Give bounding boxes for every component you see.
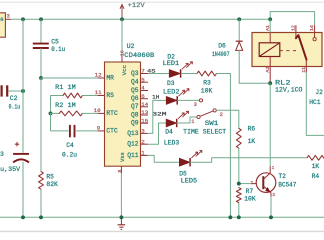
junction R1-R2 node — [49, 111, 53, 115]
junction MR node — [39, 76, 43, 80]
wire SW1 to R6 — [216, 110, 239, 128]
svg-text:D3: D3 — [167, 80, 175, 87]
relay RL2 body — [252, 33, 322, 67]
label HC1 — [309, 99, 321, 106]
svg-text:R4: R4 — [312, 173, 320, 180]
junction bus-T2 — [269, 215, 273, 219]
label TIME SELECT — [183, 129, 226, 136]
junction bus-C3 — [21, 215, 25, 219]
svg-text:R6: R6 — [248, 126, 256, 133]
T2 collector pin — [270, 166, 275, 173]
label LED5 — [181, 178, 198, 185]
svg-text:16: 16 — [119, 50, 125, 56]
resistor R1 — [55, 84, 97, 98]
svg-text:MR: MR — [106, 75, 114, 82]
U2 pin5 Q4 stub — [131, 76, 148, 85]
junction bus-R3 — [228, 215, 232, 219]
wire pin2 to D4 — [148, 123, 166, 144]
label 12V 1CO — [275, 87, 303, 94]
svg-text:4: 4 — [141, 85, 145, 92]
junction rail-C5 — [39, 17, 43, 21]
svg-text:BC547: BC547 — [278, 181, 296, 188]
svg-text:11: 11 — [95, 89, 102, 96]
svg-text:12: 12 — [95, 72, 102, 79]
label D3 — [167, 80, 175, 87]
resistor R3 — [197, 71, 217, 94]
svg-text:6: 6 — [141, 93, 145, 100]
svg-text:R5: R5 — [46, 173, 54, 180]
svg-text:1: 1 — [272, 167, 275, 171]
svg-text:U2: U2 — [127, 43, 135, 50]
svg-text:TIME SELECT: TIME SELECT — [183, 129, 226, 136]
svg-text:1K: 1K — [248, 138, 256, 145]
svg-text:RS: RS — [106, 92, 114, 99]
resistor R2 — [51, 102, 98, 116]
U2 pin13 Q8 stub — [131, 109, 149, 118]
SW1 contact 1 — [191, 115, 200, 125]
wire rail to C5 — [40, 19, 42, 43]
svg-text:12V,1CO: 12V,1CO — [275, 87, 303, 94]
svg-text:10: 10 — [94, 107, 101, 114]
relay pin 11 — [301, 60, 307, 73]
ground bus wire — [0, 216, 324, 218]
relay pin A2 — [265, 57, 271, 84]
wire C2 to node — [8, 90, 23, 92]
capacitor C5 — [33, 38, 66, 53]
relay dashed link — [280, 50, 298, 52]
svg-text:1: 1 — [141, 150, 145, 157]
svg-text:2: 2 — [220, 112, 223, 118]
wire pin3 to D3 — [148, 100, 166, 133]
svg-text:HC1: HC1 — [309, 99, 321, 106]
wire rail down to C3 — [22, 19, 24, 153]
wire C3 to ground bus — [22, 162, 24, 218]
U2 pin3 Q13 stub — [127, 128, 148, 137]
junction rail-D6 — [237, 17, 241, 21]
sheet border top — [0, 1, 324, 3]
resistor R7 — [236, 188, 256, 203]
svg-text:1N4007: 1N4007 — [212, 51, 230, 58]
wire MR node down to R5 — [40, 78, 42, 172]
SW1 contact 2 — [213, 109, 223, 118]
U2 pin7 Q3 stub — [131, 68, 148, 77]
junction rail-relay — [268, 17, 272, 21]
wire D2 to R3 — [181, 73, 197, 75]
wire C4 to pin9 — [76, 130, 97, 132]
U2 reference U2 — [127, 43, 135, 50]
resistor R5 — [39, 172, 59, 190]
LED D2 — [169, 62, 192, 78]
svg-text:Q13: Q13 — [127, 130, 139, 137]
net label 1H — [152, 93, 159, 100]
svg-text:Q9: Q9 — [131, 120, 139, 127]
power flag +12V — [120, 2, 145, 19]
wire D3 to SW contact 3 — [177, 99, 199, 101]
wire R5 to ground bus — [40, 189, 42, 217]
capacitor C3 — [0, 142, 29, 173]
label LED3 — [164, 139, 180, 146]
svg-text:Q8: Q8 — [131, 111, 139, 118]
T2 base pin — [250, 180, 256, 186]
svg-text:D6: D6 — [218, 42, 226, 49]
capacitor C2 — [2, 85, 21, 110]
svg-text:Q7: Q7 — [131, 103, 139, 110]
svg-text:R1 1M: R1 1M — [55, 84, 76, 91]
net label 4S — [147, 68, 156, 75]
svg-text:R2 1M: R2 1M — [55, 102, 76, 109]
svg-text:RL2: RL2 — [275, 79, 291, 86]
svg-text:Q3: Q3 — [131, 70, 139, 77]
relay pin 12 — [291, 25, 297, 38]
net label 32M — [152, 111, 166, 118]
svg-text:LED1: LED1 — [163, 60, 180, 67]
wire base node — [239, 183, 251, 185]
wire C5 to MR node — [40, 48, 42, 78]
junction bus-R7 — [237, 215, 241, 219]
LED D5 — [179, 150, 202, 166]
label SW1 — [205, 120, 219, 127]
pin 3 of J1 — [5, 14, 11, 20]
LED D4 — [166, 111, 189, 127]
svg-text:D5: D5 — [179, 170, 187, 177]
LED D3 — [166, 89, 189, 105]
U2 pin14 Q7 stub — [131, 101, 149, 110]
svg-text:RTC: RTC — [106, 110, 118, 117]
wire pin1 to D5 — [148, 155, 179, 162]
wire R7 to bus — [238, 203, 240, 218]
wire +12V rail — [11, 18, 270, 20]
junction base node — [237, 182, 241, 186]
svg-text:14: 14 — [309, 25, 315, 31]
junction rail-C3 — [21, 17, 25, 21]
U2 pin2 Q12 stub — [127, 138, 148, 147]
svg-text:32M: 32M — [152, 111, 166, 118]
svg-text:7: 7 — [141, 68, 145, 75]
svg-text:T2: T2 — [278, 173, 286, 180]
wire D5 to R4 row — [190, 158, 306, 162]
label D4 — [165, 129, 173, 136]
svg-text:Vcc: Vcc — [121, 64, 128, 75]
svg-text:10K: 10K — [201, 88, 213, 95]
U2 pin12 MR stub — [95, 72, 115, 82]
U2 pin15 Q9 stub — [131, 117, 149, 126]
SW1 lever — [200, 111, 213, 116]
wire relay pin14 feed — [270, 12, 314, 26]
sheet border bottom — [0, 230, 324, 232]
wire emitter to bus — [270, 197, 272, 218]
svg-text:3: 3 — [141, 128, 145, 135]
wire D6 to A2 node — [239, 50, 270, 83]
svg-text:82K: 82K — [46, 181, 58, 188]
svg-text:3: 3 — [272, 194, 275, 198]
svg-text:J2: J2 — [315, 89, 323, 96]
svg-text:5: 5 — [141, 76, 145, 83]
transistor T2 BC547 — [256, 173, 296, 193]
junction A2 node — [268, 81, 272, 85]
svg-text:Q4: Q4 — [131, 79, 139, 86]
wire R6 to base node — [238, 148, 240, 183]
svg-text:15: 15 — [141, 117, 148, 124]
wire pin11 to J2 — [306, 73, 324, 136]
capacitor C4 — [62, 125, 77, 159]
wire MR node to pin12 — [41, 77, 98, 79]
svg-text:11: 11 — [301, 67, 307, 73]
label LED1 — [163, 60, 180, 67]
svg-text:D4: D4 — [165, 129, 173, 136]
svg-text:CD4060B: CD4060B — [124, 52, 154, 59]
label J2 — [315, 89, 323, 96]
svg-text:3: 3 — [7, 14, 10, 20]
svg-text:A2: A2 — [265, 67, 271, 73]
relay pin A1 — [265, 19, 271, 43]
U2 pin16 Vcc — [119, 19, 128, 75]
svg-text:8: 8 — [117, 170, 123, 173]
U2 pin1 Q11 stub — [127, 150, 148, 159]
U2 pin6 Q6 stub — [131, 93, 148, 102]
wire D4 to SW contact 1 — [177, 117, 197, 123]
svg-text:C4: C4 — [66, 142, 74, 149]
connector J1 body — [0, 13, 5, 37]
wire node to C4 — [51, 113, 69, 130]
svg-text:10K: 10K — [244, 195, 256, 202]
U2 pin9 CTC stub — [97, 125, 118, 135]
U2 pin10 RTC stub — [94, 107, 118, 117]
wire R3 down to bus — [217, 74, 231, 218]
svg-text:1H: 1H — [152, 93, 159, 100]
svg-text:Q5: Q5 — [131, 87, 139, 94]
svg-text:2: 2 — [141, 138, 145, 145]
label LED2 — [163, 89, 180, 96]
svg-text:0.1u: 0.1u — [9, 103, 21, 110]
svg-text:Q11: Q11 — [127, 152, 139, 159]
junction bus-R5 — [39, 215, 43, 219]
relay pin 14 — [309, 25, 316, 41]
svg-text:u,35V: u,35V — [0, 166, 20, 173]
SW1 contact 3 — [194, 99, 203, 108]
svg-text:1: 1 — [191, 119, 194, 125]
resistor R6 — [236, 126, 255, 149]
ground symbol — [118, 217, 126, 229]
T2 emitter pin — [271, 193, 275, 198]
label RL2 — [275, 79, 291, 86]
svg-text:13: 13 — [141, 109, 148, 116]
svg-text:R7: R7 — [246, 188, 254, 195]
label D2 — [167, 54, 175, 61]
svg-text:LED5: LED5 — [181, 178, 198, 185]
svg-text:0: 0 — [0, 17, 3, 23]
wire A2 node to collector — [269, 83, 271, 166]
svg-text:A1: A1 — [265, 25, 271, 31]
U2 body — [105, 62, 141, 166]
svg-text:0.2u: 0.2u — [62, 152, 77, 159]
U2 pin11 RS stub — [95, 89, 115, 99]
label D5 — [179, 170, 187, 177]
junction C2 node — [21, 89, 25, 93]
relay lever — [296, 35, 307, 60]
svg-text:3: 3 — [194, 102, 197, 108]
svg-text:14: 14 — [141, 101, 148, 108]
svg-text:C2: C2 — [10, 95, 18, 102]
junction bus-U2 — [119, 215, 123, 219]
svg-text:Vss: Vss — [120, 152, 126, 162]
svg-text:R3: R3 — [203, 80, 211, 87]
svg-text:CTC: CTC — [106, 128, 118, 135]
svg-text:LED2: LED2 — [163, 89, 180, 96]
junction rail-U2 — [120, 17, 124, 21]
relay coil — [259, 43, 280, 57]
svg-text:+12V: +12V — [128, 2, 145, 9]
wire pin7 to D2 — [148, 73, 169, 75]
U2 value CD4060B — [124, 52, 154, 59]
wire R1 left — [51, 96, 64, 114]
svg-text:9: 9 — [97, 125, 101, 132]
U2 pin8 Vss — [117, 152, 126, 217]
svg-text:Q12: Q12 — [127, 141, 139, 148]
svg-text:1K: 1K — [312, 163, 320, 170]
svg-text:SW1: SW1 — [205, 120, 219, 127]
svg-text:3: 3 — [0, 151, 4, 158]
wire rail to D6 — [238, 19, 240, 41]
svg-text:0.1u: 0.1u — [51, 46, 65, 53]
resistor R4 — [307, 155, 324, 180]
U2 pin4 Q5 stub — [131, 85, 148, 94]
svg-text:Q6: Q6 — [131, 95, 139, 102]
diode D6 — [212, 41, 243, 58]
svg-text:12: 12 — [291, 25, 297, 31]
svg-text:LED3: LED3 — [164, 139, 180, 146]
svg-text:C5: C5 — [51, 38, 59, 45]
